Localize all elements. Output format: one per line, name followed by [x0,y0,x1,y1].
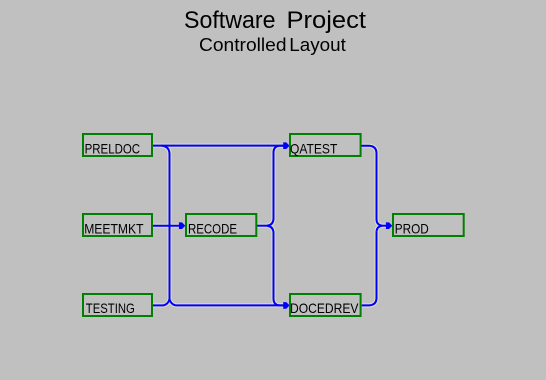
svg-text:TESTING: TESTING [86,300,135,316]
wire PRELDOC to QATEST (horizontal row 1) [153,145,284,147]
node QATEST [290,134,361,156]
svg-text:DOCEDREV: DOCEDREV [290,300,359,316]
junction merge TESTING + V1 (wishbone) [164,299,176,305]
node DOCEDREV [290,294,361,316]
svg-text:RECODE: RECODE [188,220,237,236]
svg-text:Controlled: Controlled [199,35,287,55]
node MEETMKT [83,214,152,236]
svg-text:Software: Software [184,7,276,34]
wire into PROD [382,225,387,227]
junction merge into PROD (upper branch) [377,220,383,226]
junction fork right of RECODE (down branch) [267,226,274,233]
svg-text:MEETMKT: MEETMKT [84,220,144,236]
svg-text:PRELDOC: PRELDOC [85,140,141,156]
arrowhead into DOCEDREV [283,302,289,309]
arrowhead into PROD [386,222,392,229]
node PROD [393,214,464,236]
wire DOCEDREV out to vertical V3 [362,232,377,306]
title line 2: Controlled Layout [199,35,346,55]
wire RECODE out stub [256,225,267,227]
wire merged to DOCEDREV (horizontal row 3) [176,304,284,306]
svg-text:PROD: PROD [395,220,429,236]
title line 1: Software Project [184,7,366,34]
arrowhead into QATEST [283,142,289,149]
svg-text:Project: Project [287,7,367,34]
wire vertical V1 [169,153,171,300]
wire vertical RECODE up to QATEST row [274,146,284,220]
arrowhead into RECODE [179,222,185,229]
wire branch PRELDOC down (curve into vertical V1) [162,146,170,154]
junction merge into PROD (lower branch) [377,226,383,232]
wire halo (GIF artifact) [153,146,387,306]
node TESTING [83,294,152,316]
wire vertical RECODE down to DOCEDREV row [274,232,284,305]
wire TESTING out (horizontal stub) [153,304,164,306]
wire MEETMKT to RECODE [153,225,180,227]
svg-text:QATEST: QATEST [290,140,338,156]
wire QATEST out to vertical V3 [361,146,376,220]
node PRELDOC [83,134,152,156]
junction fork right of RECODE (up branch) [267,219,274,226]
node RECODE [186,214,256,236]
svg-text:Layout: Layout [289,35,346,55]
